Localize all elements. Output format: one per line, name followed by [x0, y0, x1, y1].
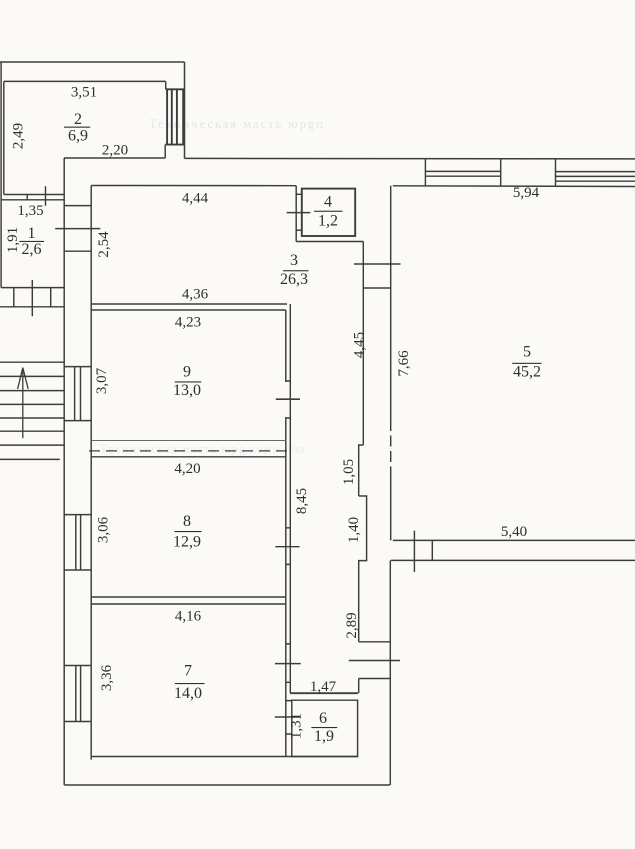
- wire room5 left wall: [390, 420, 392, 475]
- svg-text:3: 3: [290, 252, 298, 269]
- svg-text:4,16: 4,16: [175, 609, 202, 625]
- stairs treads: [0, 362, 64, 459]
- svg-text:12,9: 12,9: [173, 534, 201, 551]
- room6 box: [292, 700, 358, 756]
- room label 2 / 6,9: [68, 111, 88, 145]
- wall outer right of room2 block x=184.5: [184, 62, 186, 159]
- room label 9 / 13,0: [173, 364, 201, 400]
- svg-text:4,23: 4,23: [175, 315, 201, 331]
- door tick vestibule: [31, 280, 33, 316]
- wall band left lower segment to corridor bottom: [358, 679, 360, 694]
- svg-text:13,0: 13,0: [173, 382, 201, 399]
- wire rooms left wall: [90, 186, 92, 760]
- svg-text:2,6: 2,6: [22, 241, 42, 258]
- door tick room6: [275, 716, 301, 718]
- window pier: [501, 159, 556, 187]
- wire room7 top: [91, 603, 286, 605]
- svg-text:2: 2: [74, 111, 82, 128]
- svg-text:26,3: 26,3: [280, 271, 308, 288]
- svg-text:4,44: 4,44: [182, 191, 209, 207]
- fraction bar room4: [314, 211, 343, 212]
- wire corridor stub: [64, 250, 91, 252]
- svg-text:5: 5: [523, 344, 531, 361]
- wire room5 bottom wall lower line: [391, 559, 635, 561]
- fraction bar room9: [175, 381, 202, 382]
- svg-text:6,9: 6,9: [68, 128, 88, 145]
- wall outer top y=62: [0, 61, 185, 63]
- wire room7 bottom: [92, 756, 358, 758]
- wall room1 top y=199.8: [1, 199, 64, 201]
- svg-text:3,06: 3,06: [96, 516, 112, 543]
- svg-text:2,89: 2,89: [344, 612, 360, 638]
- door room6 jambs: [286, 701, 292, 734]
- room label 4 / 1,2: [318, 194, 338, 230]
- fraction bar room7: [175, 683, 205, 684]
- door tick room9: [276, 398, 300, 400]
- svg-text:7,66: 7,66: [396, 350, 412, 377]
- svg-text:4,45: 4,45: [352, 332, 368, 358]
- wall room2 bottom-left y=194.5: [4, 194, 64, 196]
- wire stub room4 top: [296, 193, 302, 195]
- svg-text:3,51: 3,51: [71, 85, 97, 101]
- svg-text:7: 7: [184, 663, 192, 680]
- door room7 jambs: [286, 644, 291, 682]
- wall room2 bottom-right 2,20 line y=158: [64, 157, 165, 159]
- wire below room4: [296, 241, 363, 243]
- wire right wall of stair column: [63, 158, 65, 785]
- wire band left upper: [362, 242, 364, 446]
- svg-text:4: 4: [324, 194, 332, 211]
- fraction bar room2: [64, 127, 90, 128]
- svg-text:3,07: 3,07: [94, 367, 110, 394]
- wire room9 top: [91, 309, 286, 311]
- room label 3 / 26,3: [280, 252, 308, 288]
- wire right band lower: [389, 560, 391, 785]
- wire band step: [359, 496, 367, 642]
- wire rooms right wall: [285, 310, 287, 757]
- wire band notch: [359, 445, 364, 496]
- svg-text:1,91: 1,91: [5, 227, 21, 253]
- door tick room5: [354, 263, 401, 265]
- wall room2 right stub above window: [165, 81, 167, 89]
- door tick room7: [275, 663, 301, 665]
- svg-text:1,35: 1,35: [17, 203, 43, 219]
- wire room5 bottom wall top line: [393, 539, 635, 541]
- room label 7 / 14,0: [174, 663, 202, 703]
- window band top: sill line: [393, 185, 635, 188]
- fraction bar room5: [512, 363, 541, 364]
- fraction bar room8: [175, 531, 202, 532]
- door tick room5 bottom: [413, 531, 415, 572]
- svg-text:4,20: 4,20: [174, 461, 200, 477]
- door tick band bottom: [349, 660, 400, 662]
- room label 5 / 45,2: [513, 344, 541, 381]
- svg-text:1,05: 1,05: [341, 459, 357, 485]
- svg-text:5,40: 5,40: [501, 524, 527, 540]
- niche room9 left: [64, 367, 91, 421]
- room label 8 / 12,9: [173, 513, 201, 551]
- door opening below room1: [0, 288, 64, 307]
- svg-text:1,47: 1,47: [310, 679, 337, 695]
- svg-text:1,9: 1,9: [314, 728, 334, 745]
- door rung bottom b: [359, 678, 391, 680]
- door rung room5 top: [363, 287, 390, 289]
- wire divider: [431, 540, 433, 560]
- niche room7 left: [64, 666, 91, 722]
- svg-text:2,54: 2,54: [96, 231, 112, 258]
- wall top of room5 window band y=158.5: [185, 157, 635, 160]
- niche room8 left: [64, 515, 91, 570]
- svg-text:4,36: 4,36: [182, 287, 209, 303]
- svg-text:2,20: 2,20: [102, 143, 128, 159]
- fraction bar room3: [283, 270, 309, 271]
- wire corridor stub top: [64, 205, 91, 207]
- door rung bottom a: [359, 641, 391, 643]
- wall room2 top inner y=81.4: [4, 80, 166, 82]
- wall room2 right below window: [164, 145, 166, 158]
- svg-text:1,31: 1,31: [289, 713, 305, 739]
- window W2: [556, 172, 635, 182]
- svg-text:14,0: 14,0: [174, 685, 202, 702]
- wall room2 left inner x=3.8: [3, 81, 5, 194]
- door jamb: [26, 195, 28, 200]
- svg-text:5,94: 5,94: [513, 185, 540, 201]
- fraction bar room6: [311, 727, 337, 728]
- svg-text:45,2: 45,2: [513, 364, 541, 381]
- room4 box: [302, 189, 355, 236]
- svg-text:1: 1: [28, 225, 36, 242]
- door tick corridor: [55, 228, 100, 230]
- wire room3 top wall: [91, 185, 296, 187]
- wall room1 bottom y=287.6: [1, 287, 63, 289]
- wire room3 bottom / 4,36 line: [91, 303, 287, 305]
- dashed wall line: [89, 450, 290, 452]
- wire room9 bottom: [91, 440, 286, 442]
- room label 6 / 1,9: [314, 710, 334, 745]
- wire corridor bottom / 1,47 line: [290, 692, 358, 694]
- door tick room8: [275, 546, 299, 548]
- door tick room2-room1: [45, 186, 47, 206]
- window W1: [425, 159, 500, 186]
- stairs arrow: [18, 368, 29, 439]
- svg-text:1,40: 1,40: [346, 517, 362, 543]
- svg-text:3,36: 3,36: [99, 664, 115, 691]
- svg-text:6: 6: [319, 710, 327, 727]
- wire stub room4 bottom: [296, 229, 302, 231]
- wall outer left x=1: [0, 62, 2, 288]
- wire corridor wall: [289, 304, 291, 693]
- door tick room4: [287, 212, 311, 214]
- door room9 jambs: [286, 381, 291, 418]
- svg-text:8,45: 8,45: [294, 488, 310, 514]
- svg-text:9: 9: [183, 364, 191, 381]
- wire bottom outer wall: [64, 784, 390, 786]
- wire room8 bottom: [91, 596, 286, 598]
- wire room8 top: [91, 456, 286, 458]
- room label 1 / 2,6: [22, 225, 42, 258]
- svg-text:8: 8: [183, 513, 191, 530]
- wall room3 jog at room4 x=296.2: [295, 186, 297, 242]
- svg-text:2,49: 2,49: [11, 123, 27, 149]
- door room8 jambs: [286, 528, 291, 565]
- svg-text:1,2: 1,2: [318, 213, 338, 230]
- fraction bar room1: [19, 241, 44, 242]
- window room2: [165, 89, 184, 144]
